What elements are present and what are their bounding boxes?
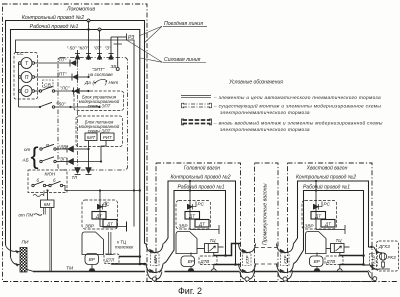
head TC cylinder xyxy=(197,248,205,250)
pipe to bogie brake cylinders (loco) xyxy=(106,232,114,255)
tee on TM pipe (head VR) xyxy=(188,269,194,272)
head DTV dashed box xyxy=(199,256,217,265)
arcs from loops to PI xyxy=(6,245,20,252)
svg-text:электропневматического тормоза: электропневматического тормоза xyxy=(220,111,310,116)
svg-text:ЗВР: ЗВР xyxy=(179,224,189,229)
tail EVR unit dashed box xyxy=(302,201,337,230)
tail new bold wire upper xyxy=(340,255,364,257)
big dash-dot enclosure of new equipment xyxy=(58,58,128,171)
svg-text:Контрольный провод №2: Контрольный провод №2 xyxy=(296,174,356,181)
svg-text:ТМ: ТМ xyxy=(66,266,73,272)
svg-text:РИТ: РИТ xyxy=(103,135,112,140)
TM pipe end hose xyxy=(368,272,373,279)
svg-text:КИТ: КИТ xyxy=(87,135,96,140)
svg-text:ДТ: ДТ xyxy=(188,214,195,219)
TM pipe segment tail car xyxy=(292,271,369,273)
wire: Контрольный провод №2 (loop1) xyxy=(6,21,145,246)
TM hose gap2 xyxy=(240,270,255,281)
callout: Поездная линия xyxy=(140,26,207,42)
svg-text:ЗВР: ЗВР xyxy=(85,224,95,229)
KIT to row V wire xyxy=(88,141,90,150)
svg-text:ДТЛ: ДТЛ xyxy=(105,258,116,263)
wire row O with SV switch xyxy=(35,90,41,92)
svg-text:ДТВ: ДТВ xyxy=(326,259,336,264)
diode row ZG xyxy=(66,158,68,165)
svg-text:ВР: ВР xyxy=(314,259,321,264)
svg-text:ДТВ: ДТВ xyxy=(200,259,210,264)
KYuN dashed box xyxy=(28,170,67,193)
new bold wire DTL to train wire 2 (loco) xyxy=(112,264,145,265)
KIT box xyxy=(85,133,97,141)
svg-text:{: { xyxy=(31,143,39,170)
lamp T xyxy=(21,58,32,69)
head VR box xyxy=(181,256,195,267)
box DT1 (loco) xyxy=(92,212,106,220)
power block dashed box xyxy=(76,116,123,147)
VR box (loco) xyxy=(85,254,99,265)
legend xyxy=(181,80,383,134)
callout: Силовая линия xyxy=(128,41,207,63)
KTR box tail end xyxy=(370,254,378,266)
RS feed wire (loco) xyxy=(99,191,101,227)
svg-text:Контрольный провод №2: Контрольный провод №2 xyxy=(22,14,84,21)
control block dashed box xyxy=(74,91,124,111)
bottom boundary dash-dot line xyxy=(147,281,397,283)
svg-text:схемы ЭПТ: схемы ЭПТ xyxy=(88,104,111,109)
head bottom wire to TC terminal xyxy=(190,225,219,234)
ZB battery xyxy=(114,37,123,68)
TM pipe segment head car xyxy=(165,271,240,273)
svg-text:): ) xyxy=(104,81,107,87)
node: open circle on wire2 x99.5 xyxy=(98,28,101,31)
svg-text:ДТ: ДТ xyxy=(95,214,102,219)
CC dashed box xyxy=(14,53,38,100)
svg-text:КТР: КТР xyxy=(245,256,250,264)
coupler lower gap1 xyxy=(146,264,163,273)
tail RS feed wire xyxy=(315,181,317,230)
column wire K/L xyxy=(77,50,79,63)
TM pipe segment loco xyxy=(33,271,145,273)
coupler upper gap3 xyxy=(277,244,294,253)
tee on TM pipe (loco VR) xyxy=(89,269,95,272)
RIT to row ZG wire xyxy=(101,141,106,162)
svg-text:Локомотив: Локомотив xyxy=(66,7,95,13)
lamp P xyxy=(21,72,32,83)
coupler lower gap3 xyxy=(277,264,294,273)
coupler upper gap1 xyxy=(146,244,163,253)
RZ relay contact branch xyxy=(111,36,126,38)
svg-text:Фиг. 2: Фиг. 2 xyxy=(178,286,202,296)
row ZG switch xyxy=(40,160,42,162)
KYuN switch 1 xyxy=(32,184,34,186)
head EVR unit dashed box xyxy=(176,201,211,230)
legend symbol: dash-dot pair with brackets xyxy=(182,103,185,108)
locomotive dashed enclosure xyxy=(3,4,148,282)
tee on TM pipe (tail VR) xyxy=(314,269,320,272)
EPT Da/Net switch arc xyxy=(96,79,106,82)
svg-text:ВР: ВР xyxy=(188,259,195,264)
diode RS (loco) xyxy=(97,204,99,210)
SV label box xyxy=(43,80,54,88)
tail EVR body box xyxy=(306,232,327,254)
EVR unit dashed box (loco) xyxy=(82,200,118,229)
svg-text:ДТ: ДТ xyxy=(314,214,321,219)
head EVR body box xyxy=(176,232,197,254)
coupler lower gap2 xyxy=(239,264,256,273)
svg-text:Силовая линия: Силовая линия xyxy=(164,57,201,63)
PI hatched block xyxy=(20,248,27,273)
svg-text:ЗВР: ЗВР xyxy=(305,224,315,229)
bottom wire to TC terminal (loco) xyxy=(100,226,127,228)
svg-text:П: П xyxy=(25,75,29,81)
tail TC stem to pipe xyxy=(339,253,341,257)
svg-text:Поездная линия: Поездная линия xyxy=(164,21,203,27)
ot PM wavy wire xyxy=(34,214,42,216)
PI to TM pipe xyxy=(27,270,33,272)
svg-text:Контрольный провод №2: Контрольный провод №2 xyxy=(170,174,230,181)
EVR body box (loco) xyxy=(82,232,104,255)
svg-text:от ПМ: от ПМ xyxy=(19,213,34,218)
tail wire loop 1 xyxy=(294,181,375,247)
RKZ lamp xyxy=(379,253,386,260)
node: open circle on wire1 xyxy=(87,19,90,22)
RIT box xyxy=(101,133,115,141)
tail end coupler curve lower xyxy=(370,265,380,269)
legend symbol: thick dash pair with brackets xyxy=(182,119,185,125)
svg-text:– элементы и цепи автоматическ: – элементы и цепи автоматического пневма… xyxy=(213,96,381,101)
legend symbol: thin solid pair xyxy=(181,95,211,97)
head TC stem to pipe xyxy=(213,253,215,257)
head car dashed enclosure xyxy=(156,163,241,282)
tail wire loop 2 xyxy=(294,191,371,266)
svg-text:РЗ: РЗ xyxy=(128,35,134,41)
svg-text:Промежуточные вагоны: Промежуточные вагоны xyxy=(263,183,269,245)
tail VR box xyxy=(310,256,324,267)
svg-text:"-50": "-50" xyxy=(67,46,77,51)
tail diode RS xyxy=(313,204,315,210)
svg-text:ДТ: ДТ xyxy=(324,222,331,227)
svg-text:СВ: СВ xyxy=(44,83,51,89)
svg-text:"ЛВ": "ЛВ" xyxy=(59,145,69,150)
inner rect top wire xyxy=(16,40,135,227)
head box DT1 xyxy=(185,212,200,220)
svg-text:"ЗГ": "ЗГ" xyxy=(59,157,68,162)
row V switch xyxy=(40,148,42,150)
svg-text:КТР: КТР xyxy=(153,256,158,264)
svg-text:РКЗ: РКЗ xyxy=(388,255,397,260)
diode row O xyxy=(73,88,75,95)
coupler upper gap2 xyxy=(239,244,256,253)
diode row P xyxy=(71,74,73,81)
svg-text:ПИ: ПИ xyxy=(22,240,29,246)
RKZ resistor element xyxy=(379,260,390,269)
node: dot on wire2 x88.5 xyxy=(87,28,89,30)
TM pipe segment intermediate xyxy=(255,271,278,273)
tail DTV dashed box xyxy=(325,256,343,265)
pipe from KM down xyxy=(50,208,52,272)
svg-text:электропневматического тормоза: электропневматического тормоза xyxy=(220,128,310,133)
svg-text:КЮН: КЮН xyxy=(45,172,56,177)
diode row V xyxy=(66,146,68,153)
tail TC cylinder xyxy=(326,248,331,250)
head wire loop 1 xyxy=(164,181,236,264)
svg-text:Да: Да xyxy=(84,80,91,85)
svg-text:ТЦ: ТЦ xyxy=(210,238,217,243)
head RS feed wire xyxy=(189,181,191,230)
svg-text:В: В xyxy=(46,143,49,148)
svg-text:ЗБ: ЗБ xyxy=(111,64,117,69)
svg-text:на составе: на составе xyxy=(88,72,113,77)
TM hose gap1 xyxy=(147,270,162,281)
KTR box gap1 xyxy=(151,253,160,266)
svg-text:Рабочий провод №1: Рабочий провод №1 xyxy=(303,184,350,191)
head wire loop 2 xyxy=(164,191,226,264)
svg-text:"ПТ": "ПТ" xyxy=(57,72,67,77)
column diode down x77.5 xyxy=(75,168,81,174)
svg-text:Головной вагон: Головной вагон xyxy=(184,165,220,172)
TM hose gap3 xyxy=(278,270,293,281)
column wire Z xyxy=(110,37,112,60)
svg-text:Нет: Нет xyxy=(109,80,119,85)
svg-text:ТЦ: ТЦ xyxy=(336,238,343,243)
KTR box gap3 xyxy=(281,253,290,266)
head box DT2 xyxy=(195,220,209,228)
KTR box gap2 xyxy=(243,253,252,266)
svg-text:РС: РС xyxy=(103,202,110,207)
svg-text:"З": "З" xyxy=(105,46,111,51)
svg-text:ВР: ВР xyxy=(89,257,96,262)
svg-text:"-50": "-50" xyxy=(56,102,66,107)
intermediate dashed enclosure xyxy=(255,163,279,282)
svg-text:"ЛТ": "ЛТ" xyxy=(57,58,67,63)
svg-text:ДГКЗ: ДГКЗ xyxy=(378,244,390,249)
DGKZ dashed box xyxy=(377,241,399,271)
row -50 xyxy=(19,106,40,108)
svg-text:"ЛС": "ЛС" xyxy=(60,86,70,91)
svg-text:Условные обозначения: Условные обозначения xyxy=(229,80,283,86)
left bus of lamps xyxy=(18,63,20,107)
svg-text:РС: РС xyxy=(324,202,331,207)
head new bold wire upper xyxy=(214,244,240,256)
svg-text:– вновь вводимый монтаж и элем: – вновь вводимый монтаж и элементы модер… xyxy=(213,120,383,127)
svg-text:Рабочий провод №1: Рабочий провод №1 xyxy=(178,184,225,191)
KYuN switch 2 xyxy=(46,185,49,187)
intermediate pass-through wire lower xyxy=(255,263,279,265)
new bold wire DTL to train wire 1 (loco) xyxy=(119,256,140,258)
column diode down x88.5 xyxy=(88,149,90,168)
wire row T xyxy=(35,62,71,64)
tail bottom wire to TC terminal xyxy=(316,225,345,234)
svg-text:"К/Л": "К/Л" xyxy=(78,46,89,51)
svg-text:КТР: КТР xyxy=(372,256,377,264)
column wire L1 xyxy=(88,21,90,61)
svg-text:РС: РС xyxy=(198,202,205,207)
svg-text:ДТ: ДТ xyxy=(198,222,205,227)
lamp O xyxy=(21,86,32,97)
svg-text:О: О xyxy=(25,89,29,95)
labels locomotive interior xyxy=(15,35,134,272)
diode row T xyxy=(70,60,78,67)
KM box xyxy=(41,200,55,208)
box DT2 (loco) xyxy=(103,220,117,228)
svg-text:"СС": "СС" xyxy=(15,51,26,57)
tail end coupler curve upper xyxy=(374,247,382,253)
intermediate pass-through wire upper xyxy=(255,247,279,249)
head new bold wire lower xyxy=(214,264,240,266)
svg-text:схемы ЭПТ: схемы ЭПТ xyxy=(88,129,111,134)
svg-text:Рабочий провод №1: Рабочий провод №1 xyxy=(30,23,79,30)
svg-text:АБ: АБ xyxy=(22,158,29,163)
column wire L2 xyxy=(99,30,101,61)
wire: Рабочий провод №1 (loop2) xyxy=(11,30,140,264)
head diode RS xyxy=(187,204,189,210)
tail new bold wire lower xyxy=(340,264,364,266)
svg-text:тележек: тележек xyxy=(115,245,134,250)
tail box DT1 xyxy=(311,212,326,220)
wire from KYuN to train wire xyxy=(63,186,140,191)
DTL dashed box (loco) xyxy=(104,254,119,264)
svg-text:КМ: КМ xyxy=(44,202,51,207)
svg-text:– существующий монтаж и элемен: – существующий монтаж и элементы модерни… xyxy=(213,103,381,110)
svg-text:"/Л": "/Л" xyxy=(94,46,102,51)
svg-text:Хвостовой вагон: Хвостовой вагон xyxy=(306,165,348,172)
tail box DT2 xyxy=(321,220,335,228)
svg-text:ДТ: ДТ xyxy=(106,222,113,227)
tail car dashed enclosure xyxy=(288,163,373,282)
wire row P xyxy=(35,76,73,78)
column diode K/L xyxy=(75,53,80,55)
